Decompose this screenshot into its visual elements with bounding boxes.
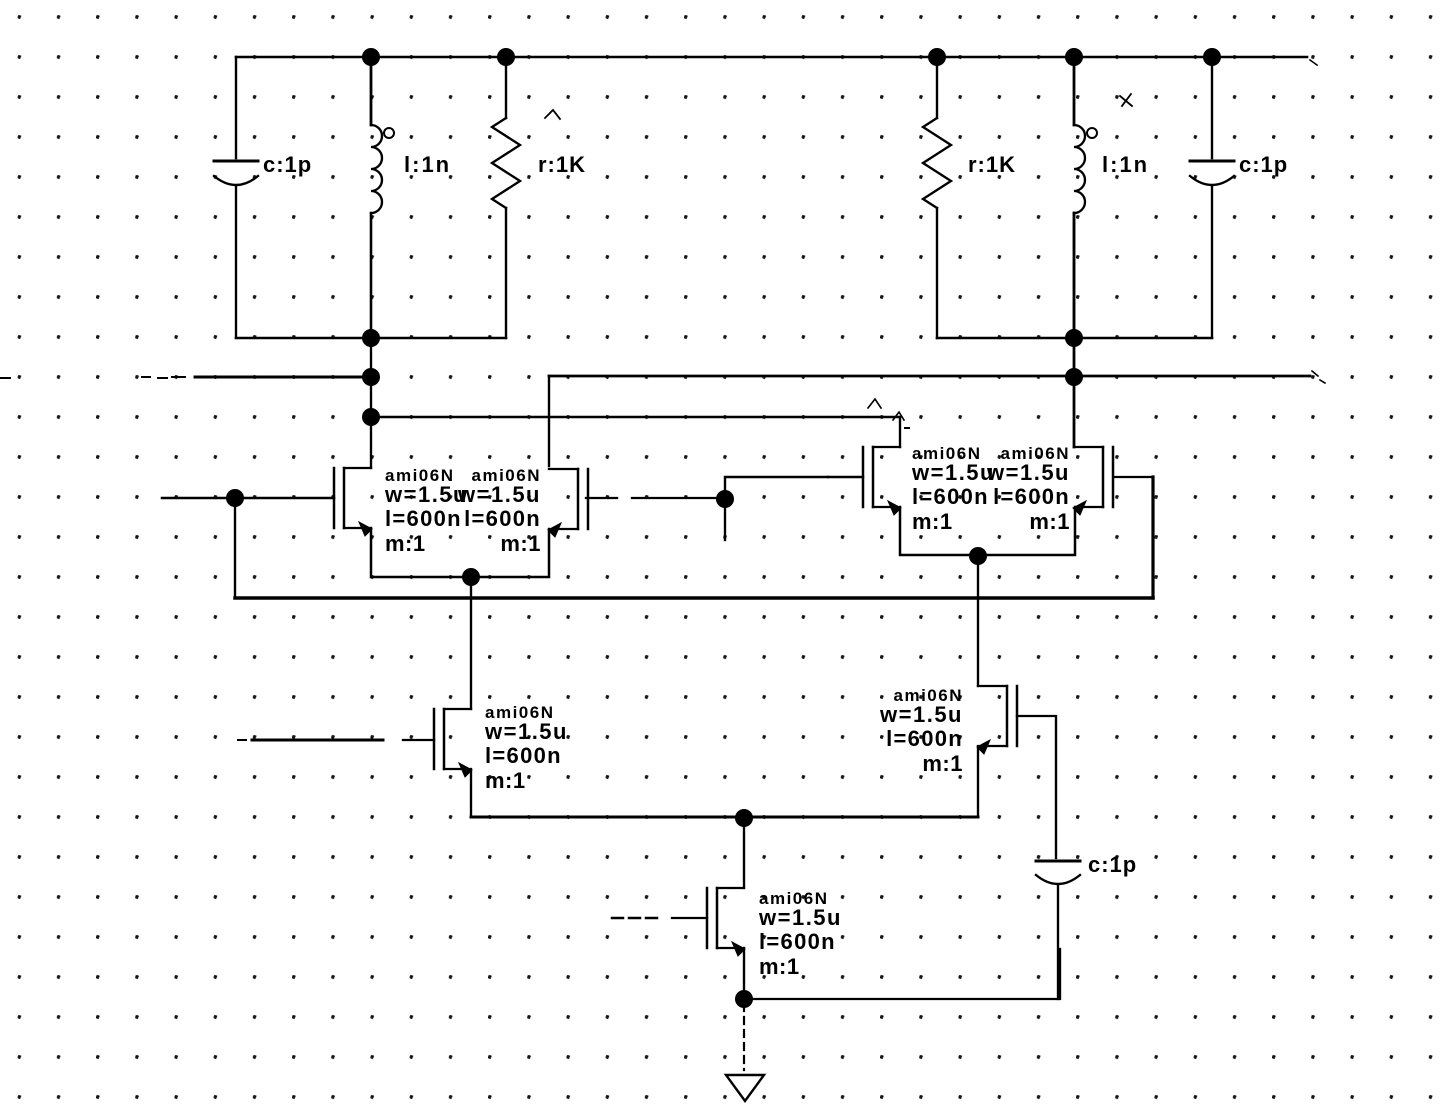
svg-text:m:1: m:1 [385,531,426,556]
svg-text:r:1K: r:1K [538,152,586,177]
svg-text:w=1.5u: w=1.5u [986,460,1070,485]
svg-text:c:1p: c:1p [1239,152,1288,177]
svg-text:l:1n: l:1n [404,152,451,177]
svg-text:l=600n: l=600n [385,506,462,531]
svg-text:c:1p: c:1p [1088,852,1137,877]
svg-text:w=1.5u: w=1.5u [457,482,541,507]
svg-text:l=600n: l=600n [886,726,963,751]
svg-text:l=600n: l=600n [464,506,541,531]
svg-text:w=1.5u: w=1.5u [484,719,568,744]
svg-text:c:1p: c:1p [263,152,312,177]
svg-text:w=1.5u: w=1.5u [758,905,842,930]
svg-text:m:1: m:1 [500,531,541,556]
svg-text:w=1.5u: w=1.5u [384,482,468,507]
svg-text:w=1.5u: w=1.5u [879,702,963,727]
svg-text:l:1n: l:1n [1102,152,1149,177]
svg-text:w=1.5u: w=1.5u [911,460,995,485]
svg-text:l=600n: l=600n [993,484,1070,509]
svg-text:l=600n: l=600n [485,743,562,768]
svg-text:r:1K: r:1K [968,152,1016,177]
svg-text:l=600n: l=600n [912,484,989,509]
svg-text:m:1: m:1 [485,768,526,793]
svg-text:l=600n: l=600n [759,929,836,954]
svg-text:m:1: m:1 [912,509,953,534]
svg-text:m:1: m:1 [1029,509,1070,534]
svg-text:m:1: m:1 [922,751,963,776]
svg-text:m:1: m:1 [759,954,800,979]
